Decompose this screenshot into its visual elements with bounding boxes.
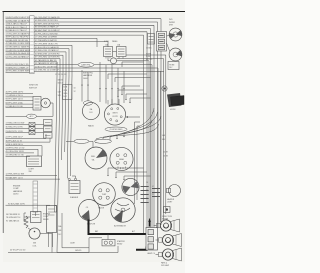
svg-text:LAMP C4: LAMP C4	[147, 252, 155, 255]
head lamp L1 body circle	[160, 220, 171, 231]
svg-text:38: 38	[146, 190, 148, 192]
wire: vertical harness x63.0	[62, 76, 63, 160]
wire: horn relay lead	[161, 70, 165, 72]
G3 oval label	[95, 139, 112, 143]
connector block C4	[146, 228, 158, 251]
svg-text:PARK &: PARK &	[161, 261, 168, 264]
bundle wire id dash	[141, 194, 149, 196]
bundle wire id dash	[152, 192, 160, 194]
svg-text:INSTR PNL: INSTR PNL	[83, 73, 93, 75]
svg-text:14 BR: 14 BR	[163, 152, 168, 154]
svg-text:PANEL: PANEL	[112, 40, 118, 43]
park lamp L3 filament mark	[166, 255, 171, 258]
connector C1 pin tick	[30, 24, 33, 26]
connector C1 pin tick	[30, 57, 33, 59]
wire: row C2 elbow down	[34, 49, 69, 76]
gauge G4 lamps	[110, 147, 133, 170]
wire: socket to bundle	[117, 60, 150, 62]
junction box JB4	[31, 212, 42, 223]
svg-text:COMP: COMP	[43, 216, 49, 218]
head lamp L2 reflector cone	[173, 234, 182, 247]
svg-text:92 BLK-TAN 16 FD: 92 BLK-TAN 16 FD	[8, 202, 26, 205]
park lamp L3 socket	[159, 252, 163, 256]
wire: row C1 elbow down	[34, 45, 72, 76]
wiper motor M1	[169, 28, 182, 41]
wire: CO2 to left	[6, 115, 27, 117]
svg-text:HORN: HORN	[170, 109, 176, 111]
wire: bundle sweep curve 4	[96, 120, 152, 142]
wire: bundle lower branch 1	[108, 168, 144, 175]
svg-text:RADIO: RADIO	[88, 125, 95, 128]
wire: F4 drop to box	[37, 149, 39, 156]
svg-text:COIL: COIL	[32, 245, 36, 247]
battery cable (heavy)	[89, 220, 148, 235]
wire: G2 top feeds	[107, 100, 109, 105]
G2 terminal pin	[120, 116, 122, 118]
connector C1 pin tick	[30, 65, 33, 67]
wire: bundle sweep curve 5	[103, 124, 159, 141]
connector C1 pin tick	[30, 37, 33, 39]
wire: drop from C3	[34, 212, 36, 216]
head lamp L1 filament mark	[164, 226, 169, 229]
cluster gauge G2	[104, 104, 125, 125]
wire: row B4 to right bundle	[34, 28, 150, 30]
wire: bundle vertical from C9	[160, 71, 162, 222]
wire: bundle lower branch 2	[116, 172, 147, 177]
junction box JB2	[44, 126, 53, 132]
wire: cluster feed drop 3	[111, 64, 113, 104]
wire: bundle sweep curve 3	[110, 116, 161, 140]
wire: bracket to JB4	[26, 216, 31, 218]
connector C1 pin tick	[30, 54, 33, 56]
wire: row C3 elbow down	[34, 52, 66, 76]
wire: relay feed	[107, 234, 109, 240]
wire: bundle vertical from socket	[148, 61, 150, 230]
wire: row C9 long right	[34, 70, 160, 72]
G4 comb ticks	[117, 167, 119, 169]
gauge G6 temp	[93, 183, 116, 206]
wire: bundle vertical from row B5	[146, 32, 148, 233]
svg-text:37 RED-ORG 12 PARK LP: 37 RED-ORG 12 PARK LP	[35, 49, 60, 52]
svg-text:SW: SW	[29, 171, 32, 173]
wire: vertical harness x60.0	[57, 76, 60, 253]
resistor ballast R1	[24, 216, 28, 228]
connector block C6 small	[148, 34, 155, 45]
wire: CO4 lead	[66, 140, 74, 142]
junction box JB1	[44, 120, 53, 126]
ignition switch S1 body	[33, 97, 41, 111]
wire: vertical harness x57.0	[55, 76, 57, 205]
wire: bundle vertical from row B4	[150, 29, 152, 232]
wire: bundle vertical extra right 2	[126, 55, 166, 214]
svg-text:14 BLK-TAN 14 TAIL LP: 14 BLK-TAN 14 TAIL LP	[6, 23, 28, 26]
voltage regulator box	[47, 206, 57, 233]
wire: bottom long run	[8, 252, 89, 254]
ignition coil T1	[29, 228, 40, 239]
G2 label oval	[105, 127, 127, 132]
wire: row C5 elbow down	[34, 59, 60, 77]
G2 terminal pin	[116, 120, 118, 122]
svg-text:HARNESS: HARNESS	[83, 74, 93, 77]
wire: regulator drop 2	[52, 233, 54, 248]
svg-text:DIRECTION: DIRECTION	[162, 216, 173, 218]
wire: row B2 to right bundle	[34, 21, 157, 23]
wire: cluster feed drop 2	[105, 65, 107, 104]
wire: CO1 continue right	[94, 64, 152, 66]
svg-text:DIR LAMP: DIR LAMP	[161, 264, 170, 267]
svg-text:MTR FD: MTR FD	[146, 59, 153, 61]
svg-text:SWITCH: SWITCH	[29, 87, 37, 89]
svg-text:INSTR: INSTR	[112, 113, 118, 115]
park lamp L3 body circle	[162, 249, 173, 260]
connector C4 pin	[148, 244, 154, 249]
wire: CB3 out	[35, 132, 44, 134]
svg-text:18B-R: 18B-R	[58, 79, 64, 81]
gauge G7 (dark segments)	[122, 178, 139, 195]
svg-text:16: 16	[146, 182, 148, 184]
wire: F3 drop to box	[41, 146, 43, 156]
connector C3 pin tick	[33, 195, 37, 197]
connector C1 pin tick	[30, 31, 33, 33]
connector C4 pin	[148, 237, 154, 242]
connector C1 pin tick	[30, 21, 33, 23]
wire: bundle branch left 3	[126, 94, 147, 99]
svg-text:12: 12	[74, 91, 76, 93]
svg-text:STARTER: STARTER	[117, 240, 126, 243]
harness connector label box	[63, 85, 73, 100]
connector C3 pin tick	[33, 187, 37, 189]
wire: cluster side vertical 2	[137, 126, 140, 200]
svg-text:CLSTR: CLSTR	[112, 116, 118, 118]
wire: fuse panel jumper	[113, 51, 117, 53]
wire: fuse outputs down	[105, 57, 107, 59]
wire: CB1 out	[35, 123, 44, 125]
G2 terminal pin	[110, 119, 112, 121]
connector C1 pin tick	[30, 28, 33, 30]
circuit breaker CB2	[29, 127, 35, 131]
svg-text:ALT: ALT	[132, 230, 135, 233]
svg-text:CLUSTER FEED: CLUSTER FEED	[110, 129, 124, 131]
G2 terminal pin	[117, 108, 119, 110]
cigar lighter icon	[164, 207, 171, 213]
fuse F1 box	[104, 47, 113, 57]
svg-text:OIL: OIL	[86, 207, 89, 209]
wire: motor leads	[167, 35, 170, 38]
wire: bundle branch left 1	[122, 86, 140, 94]
wire: coil to distributor run	[40, 234, 52, 253]
svg-text:91 TAN-TAN 16: 91 TAN-TAN 16	[6, 220, 19, 223]
circuit breaker CB3	[29, 131, 35, 135]
connector C4 pin	[148, 230, 154, 235]
connector C1 pin tick	[30, 44, 33, 46]
connector C1 pin tick	[30, 34, 33, 36]
ignition switch S1 rotor circle	[41, 98, 51, 108]
wire: cluster side vertical 1	[135, 122, 141, 204]
G2 terminal pin	[107, 113, 109, 115]
svg-text:PUMP: PUMP	[146, 56, 152, 58]
svg-text:21: 21	[152, 194, 154, 196]
bundle wire id dash	[141, 186, 149, 188]
bundle wire id dash	[141, 198, 149, 200]
wire: row B7 to fuse panel feed	[34, 38, 97, 47]
wire: row C4 elbow down	[34, 55, 63, 76]
wire: row C6 elbow down	[34, 62, 57, 76]
svg-text:16 BLK: 16 BLK	[146, 48, 152, 50]
wire: row B5 to right bundle	[34, 31, 147, 33]
wire: cluster feed drop 5	[123, 71, 125, 103]
connector C3 pin tick	[33, 191, 37, 193]
wire: harness to lower run	[57, 252, 89, 254]
wire: branch with arrow to cluster	[128, 116, 140, 118]
svg-text:COMP: COMP	[13, 188, 19, 190]
wire: bundle sweep curve 2	[117, 112, 158, 138]
wire: row B6 to right bundle	[34, 34, 143, 36]
wire: socket feed	[107, 57, 109, 61]
head lamp L2 socket	[159, 238, 163, 242]
connector C1 pin tick	[30, 41, 33, 43]
wire: bundle vertical extra right 1	[117, 59, 164, 221]
top border frame line	[3, 11, 186, 13]
regulator tab	[55, 206, 57, 213]
wire: row C7 to connector oval	[34, 64, 78, 66]
wire: bundle vertical from row B1	[160, 19, 162, 225]
svg-text:30: 30	[146, 198, 148, 200]
starter relay K1	[102, 240, 115, 246]
head lamp L1 socket	[157, 223, 161, 227]
wire: bundle branch mid 3	[115, 78, 151, 83]
connector C3 pin tick	[33, 183, 37, 185]
connector block C5	[157, 32, 167, 52]
wire: cluster feed drop 4	[117, 68, 119, 105]
svg-text:LIGHT: LIGHT	[29, 168, 35, 170]
washer pump M2	[169, 48, 182, 61]
battery cable elbow (heavy)	[136, 247, 147, 250]
flasher unit FL1	[69, 181, 80, 194]
gauge G3 fuel	[85, 147, 107, 169]
svg-text:ALTERNATOR: ALTERNATOR	[114, 225, 126, 228]
svg-text:57: 57	[152, 186, 154, 188]
head lamp L2 socket stub wire	[156, 239, 159, 241]
svg-text:HARNESS: HARNESS	[13, 190, 23, 193]
wire: row B8 drop	[34, 42, 108, 47]
horn H2 body (dark)	[167, 93, 182, 107]
wire: bundle vertical from row B2	[157, 22, 159, 227]
wire: bundle branch mid 1	[122, 62, 144, 67]
wire: CB2 out	[35, 128, 44, 130]
wire: relay side feed	[89, 237, 102, 239]
battery cable arrow up (heavy)	[149, 221, 151, 227]
wire: bundle vertical from row B6	[143, 35, 145, 235]
bundle wire id dash	[152, 196, 160, 198]
park lamp L3 socket stub wire	[156, 254, 159, 256]
heater blower motor M3	[169, 185, 181, 197]
alternator G8	[111, 198, 135, 222]
wire: relay loop below	[89, 238, 118, 253]
wire: loop left side	[62, 213, 89, 248]
inline connector oval CO3	[84, 101, 93, 105]
wire: F2 drop	[49, 138, 51, 142]
gauge G9 (partial dark)	[79, 200, 100, 221]
svg-text:16 GN: 16 GN	[163, 155, 169, 157]
inline connector oval CO2	[27, 114, 37, 118]
svg-text:RELAY: RELAY	[117, 243, 123, 246]
svg-text:30 G: 30 G	[63, 93, 67, 95]
svg-text:C2 C4 C6 C8: C2 C4 C6 C8	[55, 74, 66, 76]
inline connector oval CO4	[74, 139, 89, 143]
circuit breaker CB1	[29, 123, 35, 127]
G2 terminal pin	[111, 108, 113, 110]
wire: row B1 to right bundle	[34, 18, 161, 20]
svg-text:14289: 14289	[70, 243, 75, 245]
connector C1 pin tick	[30, 71, 33, 73]
svg-text:40 YEL-PPL 14 GD: 40 YEL-PPL 14 GD	[10, 250, 26, 252]
svg-text:WIPER: WIPER	[169, 22, 176, 24]
head lamp L1 socket stub wire	[154, 225, 157, 227]
wire: bundle sweep curve 1	[124, 108, 154, 136]
wire: coil feed from R1	[28, 228, 31, 230]
wire: radio feed drops	[81, 70, 83, 102]
wire: bundle lower branch 3	[124, 176, 151, 179]
connector C3 pin tick	[33, 207, 37, 209]
svg-text:FLASHER: FLASHER	[70, 196, 79, 199]
svg-text:MTR: MTR	[169, 25, 174, 27]
svg-text:78 GRN-WHT 14: 78 GRN-WHT 14	[6, 217, 20, 219]
svg-text:HEATER: HEATER	[167, 198, 175, 201]
wire: bundle vertical from C7	[151, 65, 153, 232]
park lamp L3 reflector cone	[173, 248, 182, 261]
svg-text:BAT: BAT	[95, 230, 98, 233]
bundle wire id dash	[141, 202, 149, 204]
head lamp L2 body circle	[162, 234, 173, 245]
wire: flasher feed jog	[72, 176, 76, 178]
svg-text:56 PNK-BRN 20: 56 PNK-BRN 20	[6, 214, 20, 216]
svg-text:14290: 14290	[13, 194, 18, 196]
svg-text:FUEL: FUEL	[91, 156, 95, 158]
connector C3 pin tick	[33, 203, 37, 205]
svg-text:WSHR: WSHR	[146, 53, 152, 55]
wire: bundle branch left 4	[130, 98, 151, 102]
light switch box	[27, 156, 42, 167]
left border frame line	[2, 12, 4, 234]
head lamp L1 reflector cone	[171, 219, 180, 232]
connector C1 pin tick	[30, 51, 33, 53]
wire: bundle vertical from C8	[157, 68, 159, 228]
fuse F2 box	[117, 47, 127, 57]
accessory socket circle	[111, 58, 117, 64]
wire: ignition loop down	[36, 103, 53, 116]
wire: vertical harness x66.0	[65, 76, 66, 152]
connector C1 pin tick	[30, 68, 33, 70]
svg-text:10: 10	[74, 88, 76, 90]
bundle wire id dash	[152, 188, 160, 190]
horn relay box	[168, 62, 179, 70]
bundle wire id dash	[141, 190, 149, 192]
wire: row B3 to right bundle	[34, 24, 154, 26]
svg-text:ENGINE: ENGINE	[13, 186, 21, 188]
wire: vertical harness x69.0	[67, 76, 69, 178]
connector C1 pin tick	[30, 47, 33, 49]
wire: bundle vertical from row B3	[153, 25, 155, 229]
wire: F1 drop to switch box	[45, 134, 47, 139]
inline connector oval CO1	[78, 62, 94, 67]
svg-text:HORN: HORN	[169, 64, 175, 66]
svg-text:GEN FD: GEN FD	[75, 250, 82, 252]
wire: bundle branch mid 2	[108, 74, 147, 79]
wire: row C8 long right	[34, 67, 158, 69]
wire: regulator drop 1	[48, 233, 50, 248]
connector C1 pin tick	[30, 18, 33, 20]
connector C3 pin tick	[33, 199, 37, 201]
junction box JB3	[44, 133, 53, 139]
engine bulkhead connector C3	[33, 181, 38, 212]
horn H1 symbol	[162, 86, 167, 91]
svg-text:FUSE: FUSE	[104, 41, 110, 43]
wire: cluster feed drop 1	[99, 62, 101, 102]
svg-text:DASH PNL: DASH PNL	[81, 64, 90, 67]
bulkhead connector C1	[30, 16, 34, 74]
head lamp L2 filament mark	[166, 240, 171, 243]
svg-text:LIGHT: LIGHT	[167, 202, 173, 204]
wire: vertical harness x72.0	[70, 76, 72, 176]
radio G1	[82, 102, 99, 119]
svg-text:IGNITION: IGNITION	[29, 85, 38, 87]
svg-text:TEMP: TEMP	[102, 194, 106, 196]
svg-text:14401: 14401	[83, 78, 88, 80]
wire: bundle branch left 2	[118, 90, 144, 96]
